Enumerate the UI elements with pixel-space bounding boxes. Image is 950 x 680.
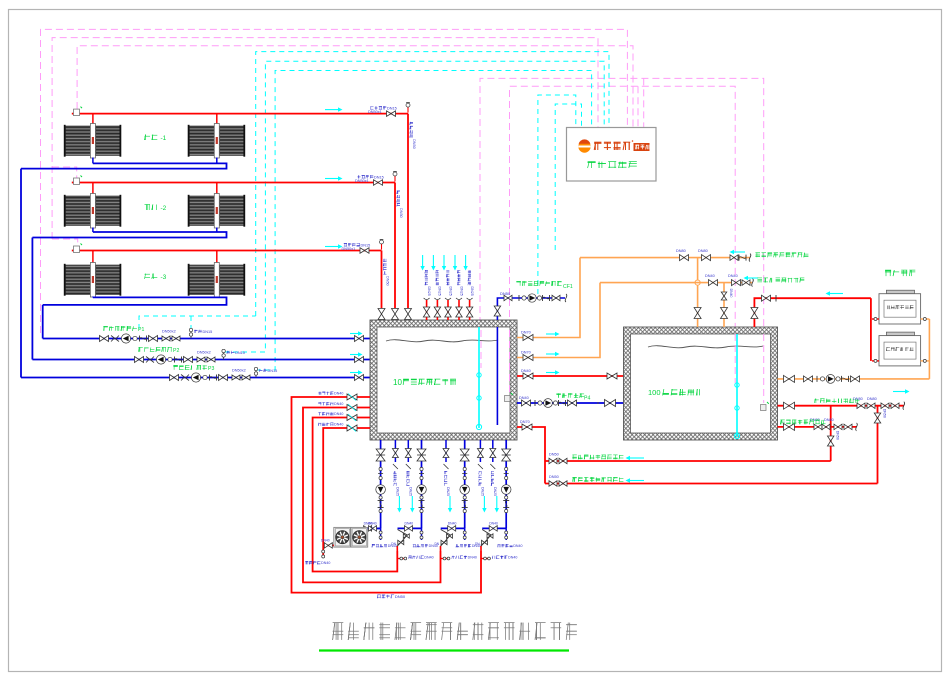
future connection stub 3 at T1 bottom — [445, 440, 447, 462]
svg-text:P4: P4 — [584, 396, 590, 402]
riser side stub 3 — [481, 558, 489, 560]
future connection stub 1 at T1 bottom — [394, 440, 396, 462]
svg-text:DN50: DN50 — [399, 208, 403, 218]
signal wire magenta loop M3 row1 sensor — [77, 46, 633, 127]
svg-text:DN15: DN15 — [374, 175, 384, 179]
valve on collector riser 1 at tank top — [378, 309, 385, 320]
fan unit outlet valve — [323, 544, 334, 546]
svg-text:DN40: DN40 — [405, 522, 414, 526]
solar collector panel row3-1 — [65, 265, 90, 295]
T2 supply line A to drying units — [778, 405, 904, 407]
pump P3 label — [173, 365, 177, 367]
svg-text:DN25: DN25 — [446, 487, 450, 496]
svg-text:DN40: DN40 — [489, 522, 498, 526]
signal wire cyan loop C5 — [555, 104, 581, 250]
valve pair on P2 — [197, 357, 205, 362]
logo sun icon — [578, 140, 590, 152]
butterfly valve column P6 — [417, 449, 426, 461]
svg-text:DN40: DN40 — [368, 522, 377, 526]
heater 2 right port — [921, 360, 930, 362]
zone riser pipe row2 to P2 — [31, 238, 33, 360]
valve pair on P1 — [162, 336, 170, 341]
collector row 2 label — [146, 205, 148, 211]
pump column P8 fittings — [505, 467, 508, 470]
svg-text:10: 10 — [393, 378, 402, 387]
drying supply riser 1 — [396, 546, 398, 551]
drying supply loop pipe 4 to fan unit — [323, 428, 370, 558]
heater hot feed bus — [870, 298, 872, 361]
collector loop pump line P3 pipe — [21, 377, 370, 379]
pump column P6 tee and drain — [421, 528, 423, 540]
valve tank T1 orange lower — [523, 355, 533, 361]
svg-text:DN40: DN40 — [334, 402, 343, 406]
row 1 header labels — [370, 108, 373, 110]
svg-text:DN25: DN25 — [438, 287, 442, 296]
drying supply riser 2 — [440, 546, 442, 551]
svg-text:DN50x1: DN50x1 — [368, 110, 382, 114]
signal wire cyan loop C1 — [256, 52, 609, 316]
svg-text:CF1: CF1 — [563, 284, 573, 290]
row 2 header labels — [358, 175, 360, 178]
pump column P8 tee and drain — [505, 528, 507, 540]
drying room return stub 3 at tank T1 top — [447, 300, 449, 320]
flow arrow row 3 — [325, 246, 338, 248]
collector loop pump line P1 pipe — [43, 338, 370, 340]
signal wire inside T1 a — [480, 330, 482, 368]
expansion joint riser 1 — [397, 530, 407, 547]
thermowell on P3 — [255, 369, 257, 378]
pump group P3 — [170, 375, 179, 381]
title underline — [319, 649, 569, 651]
svg-text:DN15: DN15 — [203, 330, 213, 334]
svg-text:DN40: DN40 — [321, 561, 330, 565]
tank transfer hot pipe T1-T2 — [517, 375, 624, 377]
drying supply loop pipe 1 — [292, 397, 482, 593]
drying circuit pump column P6 pipe — [421, 440, 423, 528]
collector row 1 hot water header — [72, 113, 408, 115]
row 3 header labels — [344, 243, 346, 246]
svg-text:DN40: DN40 — [321, 539, 330, 543]
butterfly valve column P7 — [460, 449, 469, 461]
T2 supply line B to drying units — [778, 426, 857, 428]
svg-text:DN80: DN80 — [698, 249, 708, 253]
svg-text:DN40: DN40 — [424, 556, 433, 560]
svg-text:DN40: DN40 — [334, 412, 343, 416]
tank T2 level sensor box — [761, 405, 767, 411]
svg-text:DN80: DN80 — [867, 397, 877, 401]
svg-text:DN70: DN70 — [521, 331, 531, 335]
signal wire magenta control box leg a — [643, 78, 645, 127]
fan impeller — [336, 531, 349, 544]
svg-text:DN50x2: DN50x2 — [232, 368, 246, 372]
pump column P6 fittings — [420, 467, 423, 470]
svg-text:DN25: DN25 — [493, 487, 497, 496]
pump P2 label — [137, 347, 140, 351]
svg-text:DN: DN — [475, 542, 480, 546]
tank T1 makeup dip tube — [496, 327, 498, 425]
signal wire magenta loop M2 — [52, 38, 598, 239]
air vent on row 3 riser — [381, 244, 383, 250]
transfer pump group P4 — [522, 400, 531, 406]
svg-text:DN50x2: DN50x2 — [197, 350, 211, 354]
valve on collector riser 3 at tank top — [405, 309, 412, 320]
collector row 3 cold return pipe — [92, 296, 94, 299]
svg-text:DN50x1: DN50x1 — [355, 179, 369, 183]
collector row 1 label — [144, 135, 146, 141]
signal wire magenta loop M5 tank sensors — [510, 86, 736, 394]
valve on row 2 header — [374, 180, 383, 186]
svg-text:DN40: DN40 — [468, 556, 477, 560]
makeup water line CF1 — [497, 298, 565, 320]
solar collector panel row1-1 — [65, 126, 90, 156]
fan unit inlet valve — [368, 527, 381, 529]
signal wire cyan jog pump sensors — [139, 316, 256, 329]
valve at tank T1 left entry 1 — [347, 394, 357, 400]
valve at tank T1 left entry 3 — [347, 415, 357, 421]
svg-text:DN15: DN15 — [387, 106, 397, 110]
signal wire inside T2 b — [763, 334, 765, 403]
supply line to new drying rooms — [545, 483, 878, 485]
svg-text:DN50x1: DN50x1 — [342, 247, 356, 251]
svg-text:DN50: DN50 — [500, 291, 511, 296]
svg-text:DN40: DN40 — [513, 544, 522, 548]
solar collector panel row3-2 — [189, 265, 214, 295]
svg-text:-1: -1 — [161, 135, 167, 142]
drying room return stub 5 at tank T1 top — [469, 300, 471, 320]
valve pair on P3 — [232, 375, 240, 380]
svg-text:DN80: DN80 — [824, 418, 834, 422]
valve at tank inlet P1 — [355, 336, 364, 342]
drying supply loop pipe 3 — [313, 418, 398, 572]
auxiliary heater unit 2 — [886, 332, 914, 336]
riser new-rooms line — [877, 406, 879, 484]
control cabinet box — [567, 128, 657, 182]
svg-text:DN40: DN40 — [334, 392, 343, 396]
logo brand text — [594, 142, 596, 150]
svg-text:DN40: DN40 — [508, 556, 517, 560]
heater 1 right port — [921, 318, 930, 320]
tank T1 sensor dip tube — [478, 327, 480, 428]
svg-text:DN25: DN25 — [459, 287, 463, 296]
thermowell on P1 — [190, 330, 192, 339]
temperature sensor T1 on row 1 header — [74, 109, 80, 116]
svg-text:DN80: DN80 — [853, 397, 863, 401]
tank T2 water level line — [648, 346, 763, 348]
valve on collector riser 2 at tank top — [392, 309, 399, 320]
control cabinet label — [591, 162, 593, 168]
fan coil drying unit — [334, 527, 368, 547]
signal wire magenta loop M1 — [41, 29, 628, 333]
heater circ pump group — [804, 376, 813, 382]
drying room return stub 1 at tank T1 top — [426, 300, 428, 320]
svg-text:DN25: DN25 — [470, 287, 474, 296]
butterfly valve column P5 — [376, 449, 385, 461]
pump column P7 tee and drain — [464, 528, 466, 540]
pump column P5 fittings — [379, 467, 382, 470]
air vent on row 2 riser — [394, 176, 396, 182]
valve on row 3 header — [360, 248, 369, 254]
signal wire magenta loop M4 tank sensors — [480, 78, 764, 403]
signal wire inside T1 b — [509, 330, 511, 394]
valve at tank inlet P2 — [355, 357, 364, 363]
expansion joint riser 2 — [441, 530, 451, 547]
svg-text:DN50: DN50 — [412, 139, 416, 149]
valve at tank inlet P3 — [355, 375, 364, 381]
pump group P2 — [135, 357, 144, 363]
svg-text:DN25: DN25 — [427, 287, 431, 296]
return header drop into T2 (b) — [723, 283, 725, 327]
solar collector panel row1-2 — [189, 126, 214, 156]
main drying supply label — [377, 596, 380, 598]
svg-text:DN40: DN40 — [728, 274, 738, 278]
tank T1 water level line — [386, 340, 498, 342]
pump column P7 fittings — [463, 467, 466, 470]
pump column P8 branch arm — [482, 527, 506, 529]
future connection stub 2 at T1 bottom — [407, 440, 409, 462]
tank T1 level sensor box — [505, 396, 511, 402]
svg-text:DN50x2: DN50x2 — [162, 329, 176, 333]
fan unit drain stub — [322, 550, 325, 553]
svg-text:DN25: DN25 — [408, 487, 412, 496]
svg-text:DN15: DN15 — [235, 351, 245, 355]
dryer return pipe lower (orange) — [517, 283, 600, 358]
drying circuit pump column P8 pipe — [505, 440, 507, 528]
pump column P5 branch arm — [357, 527, 381, 529]
drying room return stub 4 at tank T1 top — [458, 300, 460, 320]
pump P1 label — [103, 326, 107, 328]
heater return bus — [928, 319, 930, 379]
tank transfer pump line T1-T2 — [517, 402, 624, 404]
svg-text:DN50: DN50 — [549, 453, 559, 457]
tank T2 sensor dip tube — [736, 334, 738, 437]
signal wire cyan loop C2 — [224, 61, 604, 352]
dryer supply branch from T1 — [517, 427, 545, 484]
svg-text:DN25: DN25 — [448, 287, 452, 296]
svg-text:DN: DN — [391, 542, 396, 546]
drying supply loop pipe 2 — [303, 408, 441, 583]
svg-text:DN40: DN40 — [519, 396, 529, 400]
riser side stub 1 — [397, 558, 405, 560]
svg-text:DN70: DN70 — [520, 420, 530, 424]
svg-text:DN50: DN50 — [385, 276, 389, 286]
air vent on row 1 riser — [407, 107, 409, 113]
collector row 3 hot water header — [72, 250, 382, 252]
butterfly valve column P8 — [502, 449, 511, 461]
fan impeller — [353, 531, 366, 544]
flow arrow row 1 — [325, 109, 338, 111]
svg-text:100: 100 — [648, 388, 661, 397]
riser existing-rooms line — [830, 406, 832, 461]
svg-text:DN70: DN70 — [521, 351, 531, 355]
pump column P5 tee and drain — [380, 528, 382, 540]
drying room return stub 2 at tank T1 top — [436, 300, 438, 320]
valve at tank T1 left entry 4 — [347, 425, 357, 431]
return header drop into T2 (a) — [697, 258, 699, 327]
valve tank T1 orange upper — [523, 335, 533, 341]
future connection stub 4 at T1 bottom — [479, 440, 481, 462]
temperature sensor T2 on row 2 header — [74, 178, 80, 185]
drying supply riser 3 — [480, 546, 482, 551]
return header to existing rooms (orange) — [580, 257, 750, 259]
svg-text:DN40: DN40 — [729, 289, 733, 298]
collector row 2 riser to tank — [394, 183, 396, 309]
solar collector panel row2-2 — [189, 196, 214, 226]
collector row 2 hot water header — [72, 182, 395, 184]
collector loop pump line P2 pipe — [32, 359, 370, 361]
supply arrows — [893, 391, 905, 393]
svg-text:DN50: DN50 — [836, 431, 840, 440]
drying circuit pump column P7 pipe — [464, 440, 466, 528]
svg-text:DN25: DN25 — [396, 487, 400, 496]
pump group P1 — [100, 336, 109, 342]
future connection stub 5 at T1 bottom — [492, 440, 494, 462]
signal wire magenta branch row2 sensor — [52, 167, 77, 178]
collector row 1 cold return pipe — [92, 158, 94, 164]
auxiliary energy label — [885, 271, 891, 273]
auxiliary heater unit 1 — [886, 290, 914, 294]
return header to new rooms (orange) — [600, 282, 752, 284]
pump CF1 label — [516, 281, 520, 283]
svg-text:-2: -2 — [161, 205, 167, 212]
supply line to existing drying rooms — [545, 460, 831, 462]
valve on transfer hot pipe — [523, 373, 533, 379]
riser side stub 2 — [441, 558, 449, 560]
solar collector panel row2-1 — [65, 196, 90, 226]
pump column P6 branch arm — [398, 527, 422, 529]
svg-text:DN40: DN40 — [334, 423, 343, 427]
drying circuit pump column P5 pipe — [380, 440, 382, 528]
thermowell on P2 — [223, 351, 225, 360]
valve at tank T1 left entry 2 — [347, 405, 357, 411]
dryer return pipe upper (orange) — [517, 258, 580, 338]
signal wire magenta branch row3 sensor — [52, 239, 78, 246]
heater circulation pump line — [778, 378, 930, 380]
transfer pump label — [556, 393, 560, 395]
svg-text:DN40: DN40 — [705, 274, 715, 278]
pump column P7 branch arm — [441, 527, 465, 529]
signal wire magenta control box leg b — [637, 86, 639, 127]
valve at T1 dryer branch — [522, 424, 532, 430]
zone riser pipe row3 to P1 — [42, 305, 44, 339]
signal wire cyan loop C3 — [256, 71, 592, 371]
tank T2 100t heating tank shell — [624, 327, 778, 440]
zone riser pipe row1 to P3 — [20, 169, 22, 378]
temperature sensor T3 on row 3 header — [74, 246, 80, 253]
collector row 1 riser to tank — [407, 114, 409, 308]
collector row 2 cold return pipe — [92, 228, 94, 233]
svg-text:DN15: DN15 — [268, 369, 278, 373]
svg-text:DN50: DN50 — [883, 409, 887, 418]
valve T2 heater line — [784, 375, 795, 382]
tank T1 10t collector tank shell — [370, 320, 517, 440]
signal wire cyan loop C4 — [538, 95, 576, 294]
svg-text:DN80: DN80 — [676, 249, 686, 253]
valve on row 1 header — [387, 111, 396, 117]
signal wire inside T2 a — [734, 334, 736, 383]
svg-text:-3: -3 — [161, 274, 167, 281]
signal wire cyan drop P1 sensor — [190, 316, 192, 330]
hot supply riser from T2 to heaters — [754, 298, 871, 327]
svg-text:DN25: DN25 — [481, 487, 485, 496]
svg-text:P1: P1 — [138, 327, 144, 333]
heater 1 left port — [872, 318, 879, 320]
expansion joint riser 3 — [481, 530, 491, 547]
svg-text:DN50: DN50 — [395, 594, 406, 599]
svg-text:P2: P2 — [173, 348, 179, 354]
svg-text:DN40: DN40 — [521, 369, 531, 373]
svg-text:DN: DN — [435, 542, 440, 546]
drawing title — [333, 634, 344, 636]
svg-text:DN50: DN50 — [549, 475, 559, 479]
heater 2 left port — [872, 360, 879, 362]
svg-text:P3: P3 — [208, 366, 214, 372]
flow arrow row 2 — [325, 178, 338, 180]
collector row 3 label — [145, 273, 151, 275]
svg-text:DN40: DN40 — [448, 522, 457, 526]
svg-text:DN15: DN15 — [361, 243, 371, 247]
collector row 3 riser to tank — [381, 251, 383, 309]
